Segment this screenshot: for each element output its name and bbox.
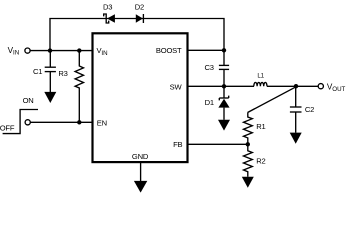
node SW junction bbox=[222, 84, 226, 88]
node EN junction bbox=[77, 120, 81, 124]
svg-text:C3: C3 bbox=[205, 63, 214, 72]
svg-text:R3: R3 bbox=[58, 69, 67, 78]
wire L1 to VOUT bbox=[267, 85, 318, 87]
svg-text:GND: GND bbox=[132, 152, 149, 161]
svg-text:R1: R1 bbox=[256, 122, 265, 131]
node R3 top junction bbox=[77, 48, 81, 52]
wire SW bbox=[188, 85, 255, 87]
svg-text:OFF: OFF bbox=[0, 123, 15, 132]
node FB junction bbox=[246, 142, 250, 146]
svg-text:ON: ON bbox=[23, 96, 34, 105]
wire FB bbox=[188, 143, 248, 145]
ground under C1 bbox=[44, 92, 56, 103]
wire top rail bbox=[50, 19, 224, 51]
wire BOOST bbox=[188, 49, 225, 51]
ground GND pin bbox=[140, 163, 142, 181]
IC U1 body bbox=[93, 33, 188, 162]
svg-text:D1: D1 bbox=[205, 98, 214, 107]
ground under C2 bbox=[290, 133, 302, 144]
diode D2 bbox=[136, 14, 144, 23]
capacitor C2 bbox=[290, 86, 302, 133]
svg-text:D3: D3 bbox=[103, 3, 112, 12]
resistor R1 bbox=[244, 113, 253, 145]
node VIN junction bbox=[48, 48, 52, 52]
ground under D1 bbox=[218, 120, 230, 131]
node BOOST junction bbox=[222, 48, 226, 52]
switch terminal circle bbox=[25, 120, 30, 125]
svg-text:SW: SW bbox=[170, 82, 183, 91]
capacitor C1 bbox=[45, 51, 56, 92]
svg-text:D2: D2 bbox=[135, 3, 144, 12]
capacitor C3 bbox=[219, 50, 229, 86]
diode D3 bbox=[104, 14, 115, 23]
node VOUT junction bbox=[294, 84, 298, 88]
svg-text:EN: EN bbox=[97, 118, 107, 127]
svg-text:FB: FB bbox=[173, 140, 182, 149]
inductor L1 bbox=[254, 82, 267, 86]
svg-text:R2: R2 bbox=[256, 156, 265, 165]
svg-text:C2: C2 bbox=[305, 105, 314, 114]
wire VIN terminal to IC bbox=[30, 50, 92, 52]
svg-text:L1: L1 bbox=[257, 73, 264, 80]
wire diagonal VOUT to R1 bbox=[248, 87, 296, 113]
svg-text:C1: C1 bbox=[33, 67, 42, 76]
resistor R3 bbox=[75, 51, 83, 123]
wire EN bbox=[30, 121, 92, 123]
diode D1 bbox=[218, 86, 229, 120]
ground under R2 bbox=[242, 177, 254, 188]
resistor R2 bbox=[244, 144, 253, 177]
switch lever ON/OFF bbox=[3, 110, 38, 134]
VOUT terminal bbox=[318, 84, 323, 89]
svg-text:BOOST: BOOST bbox=[156, 46, 182, 55]
VIN terminal bbox=[25, 48, 30, 53]
